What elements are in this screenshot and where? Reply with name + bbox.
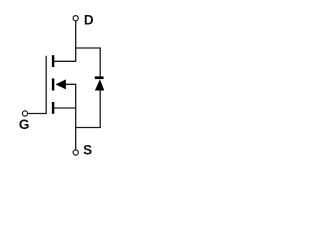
transistor Q1 bottom channel bar (source) (52, 102, 54, 114)
wire drain vertical + corner to top bar (54, 21, 76, 61)
svg-text:D: D (84, 12, 94, 27)
svg-text:G: G (19, 117, 30, 132)
wire diode bottom branch (75, 90, 100, 128)
wire gate lead + gate electrode line (28, 56, 46, 114)
wire body line + source rail (65, 84, 76, 149)
terminal G circle (22, 111, 27, 116)
transistor Q1 body arrow (56, 79, 66, 89)
diode anode triangle (95, 79, 104, 90)
wire diode top branch (76, 48, 101, 77)
svg-text:S: S (83, 142, 92, 157)
transistor Q1 middle channel bar (body) (52, 78, 54, 90)
diode cathode bar (95, 76, 104, 79)
transistor Q1 top channel bar (drain) (52, 55, 54, 67)
terminal D circle (73, 16, 78, 21)
terminal S circle (73, 150, 78, 155)
wire source bar lead (54, 107, 75, 109)
